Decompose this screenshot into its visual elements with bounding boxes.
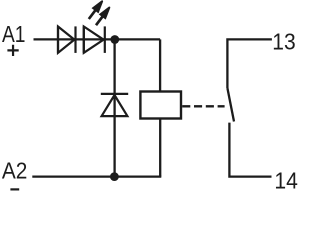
LED D2	[84, 26, 105, 53]
wire terminal 14	[229, 123, 271, 177]
svg-text:13: 13	[272, 29, 295, 55]
wire top to coil corner	[159, 39, 161, 91]
contact blade	[227, 88, 234, 122]
junction node bottom	[110, 172, 119, 181]
LED light-emission arrow 2	[92, 4, 113, 28]
diode D1	[58, 26, 76, 53]
plus sign	[7, 45, 18, 56]
mechanical link dashed line	[182, 105, 224, 107]
minus sign	[10, 188, 19, 190]
wire terminal 13	[227, 39, 272, 88]
wire A1 horizontal	[34, 38, 161, 40]
freewheel diode D3	[101, 94, 128, 116]
svg-text:A1: A1	[2, 21, 26, 47]
svg-text:14: 14	[274, 167, 298, 192]
wire coil bottom	[159, 119, 161, 177]
wire A2 horizontal	[32, 175, 161, 177]
junction node top	[110, 35, 119, 44]
relay coil K1	[140, 92, 181, 119]
LED light-emission arrow 1	[85, 0, 106, 22]
svg-text:A2: A2	[2, 158, 28, 184]
freewheel diode branch wire	[113, 40, 115, 177]
